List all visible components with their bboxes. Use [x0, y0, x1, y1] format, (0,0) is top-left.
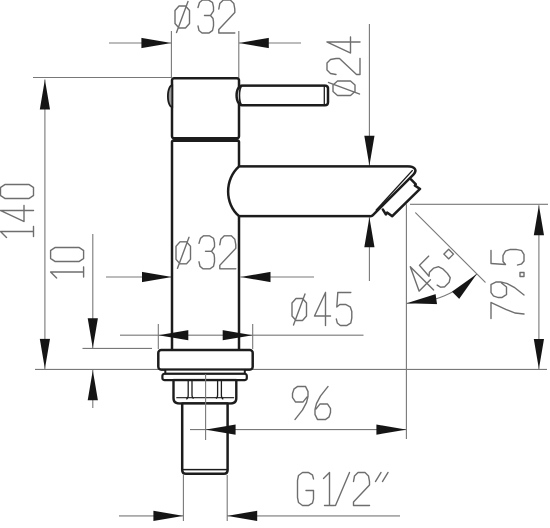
text dia32 middle: [176, 236, 236, 269]
text 140 rotated: [1, 185, 34, 238]
arrow 140 bottom: [40, 339, 50, 369]
dimension line dia24: [368, 24, 370, 166]
arrow 45deg arc upper: [452, 270, 480, 298]
text 10 rotated: [51, 248, 84, 279]
extension line 10 upper: [83, 347, 153, 349]
arrow dia32 top left: [141, 38, 171, 48]
faucet head block: [172, 78, 239, 138]
dimension line 79.5: [538, 205, 540, 369]
text dia32 top: [175, 0, 235, 33]
arrow 45deg arc lower: [406, 294, 437, 308]
arrow dia24 top: [364, 136, 374, 166]
nut bottom chamfer line: [177, 397, 234, 399]
handle lever bar: [237, 86, 328, 106]
extension line G12 left: [182, 475, 184, 521]
text dia45: [292, 293, 352, 326]
faucet body column: [172, 141, 239, 350]
washer: [162, 374, 246, 380]
arrow 140 top: [40, 80, 50, 110]
extension line dia45 right: [252, 324, 254, 349]
extension line spout tip vertical: [405, 204, 407, 439]
45 degree arc: [406, 274, 476, 303]
extension line top of faucet (140 datum): [33, 77, 171, 79]
45 degree reference line: [415, 213, 485, 283]
base lip: [165, 370, 245, 374]
base flange: [158, 350, 252, 370]
extension line spout tip horizontal: [410, 203, 548, 205]
center line of pipe: [205, 374, 207, 440]
arrow 79.5 bottom: [534, 339, 544, 369]
text 45 degrees rotated: [403, 239, 466, 302]
dimension line G12: [119, 515, 183, 517]
arrow dia32 mid left: [142, 272, 172, 282]
nut: [174, 380, 237, 403]
arrow 96 right: [376, 425, 406, 435]
handle left end cap inner arc: [239, 86, 241, 104]
text 96: [293, 387, 331, 420]
handle pivot bump: [168, 85, 172, 107]
dimension line 140: [44, 80, 46, 370]
arrow dia24 bottom: [364, 217, 374, 247]
arrow G12 right: [227, 511, 257, 521]
dimension line dia32 middle: [106, 276, 172, 278]
spout nozzle block: [383, 179, 420, 216]
extension line G12 right: [226, 475, 228, 521]
arrow dia45 right: [223, 330, 253, 340]
text 79.5 rotated: [491, 250, 524, 319]
arrow dia45 left: [158, 330, 188, 340]
arrow 79.5 top: [534, 205, 544, 235]
threaded pipe: [182, 403, 227, 473]
extension line dia45 left: [157, 324, 159, 349]
extension line bottom datum: [35, 368, 547, 370]
arrow 96 left: [206, 425, 236, 435]
pipe end chamfer line: [184, 469, 227, 471]
text G 1/2 inch: [298, 473, 389, 506]
head-body joint second line: [173, 140, 239, 142]
arrow 10 bottom: [88, 370, 98, 400]
handle end cap inset line: [323, 87, 325, 105]
dimension line 10: [92, 234, 94, 348]
spout cut inner line: [376, 171, 412, 210]
arrow G12 left: [153, 511, 183, 521]
dimension line dia45: [120, 334, 364, 336]
dimension line dia32 top: [109, 42, 171, 44]
text dia24 rotated: [327, 37, 360, 96]
arrow dia32 top right: [239, 38, 269, 48]
nut facet lines: [187, 380, 223, 399]
spout: [228, 166, 415, 216]
extension line dia32 top right: [238, 31, 240, 78]
dimension line 96: [190, 429, 406, 431]
arrow 10 top: [88, 318, 98, 348]
arrow dia32 mid right: [241, 272, 271, 282]
extension line dia32 top left: [170, 31, 172, 78]
